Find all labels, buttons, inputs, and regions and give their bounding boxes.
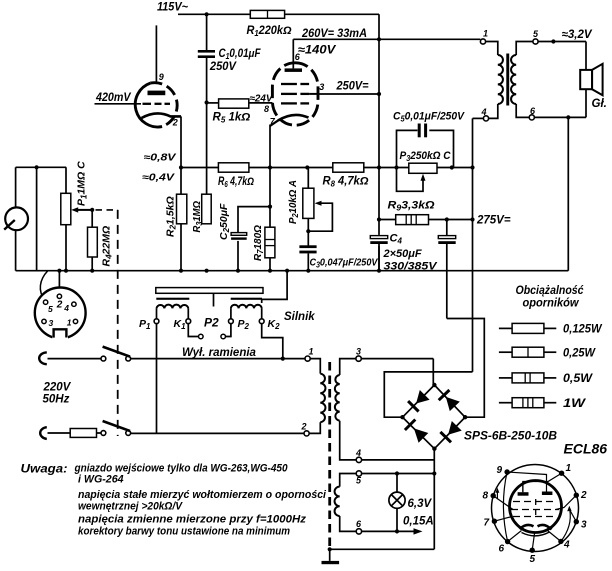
svg-text:5: 5 xyxy=(530,554,536,565)
svg-text:50Hz: 50Hz xyxy=(43,394,70,406)
svg-text:1: 1 xyxy=(67,318,72,328)
svg-text:Silnik: Silnik xyxy=(284,311,315,323)
svg-text:napięcia zmienne mierzone przy: napięcia zmienne mierzone przy f=1000Hz xyxy=(78,514,307,526)
svg-text:C30,047μF/250V: C30,047μF/250V xyxy=(310,257,379,270)
svg-text:4: 4 xyxy=(563,540,570,551)
svg-text:Wył. ramienia: Wył. ramienia xyxy=(182,347,257,359)
svg-text:R422MΩ: R422MΩ xyxy=(101,226,114,267)
svg-text:8: 8 xyxy=(264,104,269,114)
svg-text:4: 4 xyxy=(63,303,69,313)
svg-text:250V=: 250V= xyxy=(336,81,369,93)
svg-text:5: 5 xyxy=(48,304,53,314)
svg-text:wewnętrznej >20kΩ/V: wewnętrznej >20kΩ/V xyxy=(78,501,184,513)
svg-text:0,15A: 0,15A xyxy=(403,516,434,528)
svg-text:4: 4 xyxy=(355,448,361,458)
svg-text:C50,01μF/250V: C50,01μF/250V xyxy=(393,111,466,124)
svg-text:oporników: oporników xyxy=(523,298,580,310)
svg-text:≈24V: ≈24V xyxy=(250,94,274,105)
svg-text:Obciążalność: Obciążalność xyxy=(516,285,585,297)
svg-text:i WG-264: i WG-264 xyxy=(78,474,124,486)
svg-text:9: 9 xyxy=(497,465,503,476)
svg-text:1: 1 xyxy=(566,463,572,474)
svg-text:3: 3 xyxy=(49,318,54,328)
svg-text:≈140V: ≈140V xyxy=(298,45,337,57)
svg-text:330/385V: 330/385V xyxy=(384,261,439,273)
svg-text:P2: P2 xyxy=(204,316,219,330)
svg-text:2: 2 xyxy=(580,490,587,501)
svg-text:R93,3kΩ: R93,3kΩ xyxy=(388,200,435,213)
svg-text:420mV: 420mV xyxy=(95,92,132,104)
svg-text:7: 7 xyxy=(484,518,490,529)
svg-text:C10,01μF: C10,01μF xyxy=(219,48,262,61)
svg-text:115V~: 115V~ xyxy=(157,2,188,14)
svg-text:275V=: 275V= xyxy=(476,215,511,227)
svg-text:6: 6 xyxy=(499,544,505,555)
svg-text:2: 2 xyxy=(172,118,178,128)
svg-text:0,5W: 0,5W xyxy=(563,373,593,385)
svg-text:1W: 1W xyxy=(563,398,586,410)
svg-text:1: 1 xyxy=(483,29,488,39)
svg-text:3: 3 xyxy=(356,347,361,357)
svg-text:P11MΩ C: P11MΩ C xyxy=(76,161,89,206)
svg-text:0,125W: 0,125W xyxy=(563,324,603,336)
svg-text:3: 3 xyxy=(581,520,587,531)
svg-text:260V= 33mA: 260V= 33mA xyxy=(301,28,367,40)
svg-text:0,25W: 0,25W xyxy=(563,347,596,359)
svg-text:R8 4,7kΩ: R8 4,7kΩ xyxy=(323,176,369,189)
svg-text:3: 3 xyxy=(319,82,324,92)
svg-text:R5 1kΩ: R5 1kΩ xyxy=(213,112,251,125)
svg-text:2: 2 xyxy=(301,422,307,432)
svg-text:C250μF: C250μF xyxy=(218,203,231,240)
svg-text:R31MΩ: R31MΩ xyxy=(191,201,204,233)
svg-text:Uwaga:: Uwaga: xyxy=(21,462,68,476)
svg-text:6,3V: 6,3V xyxy=(408,498,433,510)
svg-text:≈3,2V: ≈3,2V xyxy=(562,29,593,41)
svg-text:2: 2 xyxy=(56,300,63,311)
svg-text:ECL86: ECL86 xyxy=(564,441,608,457)
svg-text:Gł.: Gł. xyxy=(592,98,607,110)
svg-text:R7180Ω: R7180Ω xyxy=(252,225,265,261)
svg-text:220V: 220V xyxy=(43,382,72,394)
svg-text:R21,5kΩ: R21,5kΩ xyxy=(165,196,178,237)
svg-text:R6 4,7kΩ: R6 4,7kΩ xyxy=(218,176,254,189)
svg-text:≈0,4V: ≈0,4V xyxy=(142,173,176,184)
svg-text:korektory barwy tonu ustawione: korektory barwy tonu ustawione na minimu… xyxy=(78,526,290,538)
svg-text:1: 1 xyxy=(309,347,314,357)
svg-text:2×50μF: 2×50μF xyxy=(383,248,422,260)
svg-text:≈0,8V: ≈0,8V xyxy=(144,153,178,164)
svg-text:napięcia stałe mierzyć wołtomi: napięcia stałe mierzyć wołtomierzem o op… xyxy=(78,489,327,501)
svg-text:250V: 250V xyxy=(209,61,237,73)
svg-text:8: 8 xyxy=(483,491,489,502)
svg-text:4: 4 xyxy=(481,107,487,117)
svg-text:SPS-6B-250-10B: SPS-6B-250-10B xyxy=(464,431,557,443)
svg-text:R1220kΩ: R1220kΩ xyxy=(247,25,292,38)
svg-text:9: 9 xyxy=(159,72,164,82)
